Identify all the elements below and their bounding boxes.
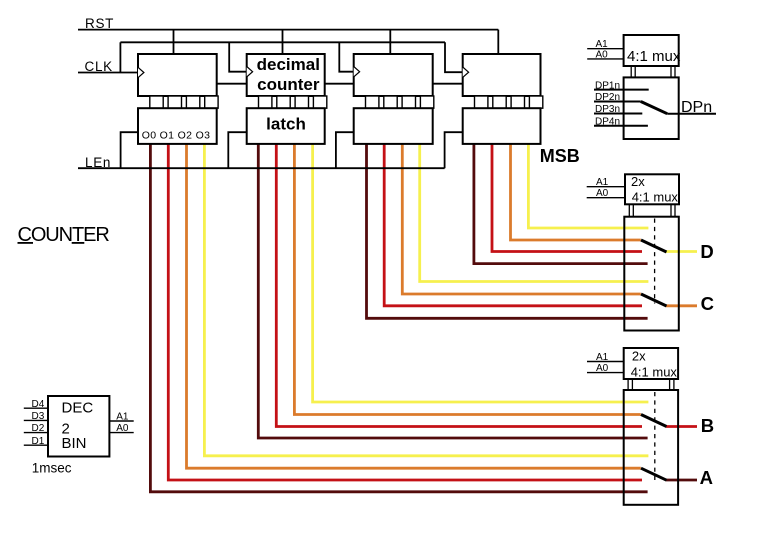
svg-text:A1: A1 [596,352,609,363]
svg-text:4:1 mux: 4:1 mux [632,190,679,205]
svg-text:A1: A1 [116,412,129,423]
mux U5 switch box [624,77,679,139]
pins counter U3 to latch L3 [366,96,434,108]
output line DPn [667,113,716,115]
svg-text:D2: D2 [32,423,45,434]
switch arm C [641,294,667,306]
svg-text:B: B [701,415,714,436]
counter U3 [354,54,433,96]
wire O1 digit1 (red) latch1 to mux A input 3 [168,144,642,480]
input line DP2n [594,101,641,103]
switch arm A [641,468,667,480]
wire O0 digit1 (dark red) latch1 to mux A input 4 [150,144,647,492]
pins U6 control to switch [629,204,633,216]
wire CLK to counter U3 [339,42,353,71]
mux U5 4:1 mux control box [624,35,679,66]
mux U5 A0 select line [587,58,623,60]
wire O2 digit4 (orange) latch4 to mux D input 2 [511,144,641,240]
counter U4 [463,54,541,96]
pins counter U2 to latch L2 [259,96,327,108]
mux U5 A1 select line [587,48,623,50]
wire O1 digit3 (red) latch3 to mux C input 3 [384,144,642,306]
wire O3 digit2 (yellow) latch2 to mux B input 1 [313,144,649,402]
latch L4 [463,108,541,144]
wire O2 digit3 (orange) latch3 to mux C input 2 [402,144,641,294]
svg-text:RST: RST [85,16,114,31]
svg-text:C: C [701,293,714,314]
output line A1 of converter [109,420,133,422]
pins counter U4 to latch L4 [475,96,543,108]
svg-text:DP4n: DP4n [595,116,620,127]
svg-text:O0 O1 O2 O3: O0 O1 O2 O3 [142,129,211,141]
wire CLK input [78,72,138,74]
output line A0 of converter [109,432,133,434]
clock pin triangle U4 [463,67,469,77]
latch L3 [354,108,433,144]
counter U1 [138,54,217,96]
wire LEn to latch L1 [121,132,138,168]
wire O3 digit3 (yellow) latch3 to mux C input 1 [420,144,649,282]
switch arm U5 [641,102,667,114]
svg-text:A1: A1 [596,177,609,188]
svg-text:2x: 2x [632,348,646,363]
wire O2 digit1 (orange) latch1 to mux A input 2 [187,144,641,468]
dashed select line U7 [654,392,656,480]
wire output C (orange) [666,304,697,307]
wire RST to counter U2 [282,30,284,54]
wire O3 digit1 (yellow) latch1 to mux A input 1 [204,144,648,456]
svg-text:4:1 mux: 4:1 mux [627,48,681,65]
svg-text:2x: 2x [631,174,645,189]
svg-text:A1: A1 [596,39,609,50]
wire output D (yellow) [666,250,697,253]
svg-text:LEn: LEn [85,155,111,170]
svg-text:D: D [700,241,713,262]
mux U7 2x 4:1 mux control box [624,348,678,379]
wire LEn to latch L3 [336,132,354,168]
svg-text:D4: D4 [32,399,45,410]
wire O2 digit2 (orange) latch2 to mux B input 2 [294,144,640,415]
svg-text:counter: counter [257,75,320,94]
svg-text:4:1 mux: 4:1 mux [631,364,678,379]
svg-text:DEC: DEC [62,399,94,416]
pins U7 control to switch [628,379,632,390]
wire RST to counter U3 [389,30,391,54]
wire LEn to latch L2 [228,132,246,168]
input line D1 [24,444,48,446]
pins counter U1 to latch L1 [150,96,218,108]
input line D3 [24,419,48,421]
wire O1 digit2 (red) latch2 to mux B input 3 [276,144,642,427]
mux U6 2x 4:1 mux control box [625,174,679,204]
wire output A (dark red) [666,479,697,482]
dashed select line U6 [654,219,656,304]
wire O3 digit4 (yellow) latch4 to mux D input 1 [528,144,648,228]
mux U6 A0 select line [587,197,625,199]
svg-text:D3: D3 [32,411,45,422]
svg-text:A0: A0 [116,423,129,434]
svg-text:A0: A0 [596,188,609,199]
pins U5 control to switch [631,66,635,77]
svg-text:D1: D1 [32,436,45,447]
clock pin triangle U2 [247,67,253,77]
wire O0 digit4 (dark red) latch4 to mux D input 4 [474,144,648,264]
wire output B (red) [666,425,697,428]
latch L1 [138,108,217,144]
svg-text:CLK: CLK [85,59,113,74]
wire LEn to latch L4 [445,132,463,168]
svg-text:A: A [700,467,713,488]
input line DP1n [594,89,649,91]
svg-text:DPn: DPn [681,99,712,116]
wire O1 digit4 (red) latch4 to mux D input 3 [492,144,642,252]
svg-text:decimal: decimal [257,55,320,74]
mux U6 switch box [624,217,679,331]
svg-text:1msec: 1msec [32,461,72,476]
net RST [78,29,498,31]
mux U7 switch box [624,390,678,505]
wire carry U3 to U4 [433,83,463,85]
svg-text:A0: A0 [596,50,609,61]
net CLK distribution line [120,41,445,43]
wire RST to counter U1 [173,30,175,54]
switch arm D [641,240,667,252]
switch arm B [641,415,667,427]
wire carry U1 to U2 [217,83,247,85]
DEC 2 BIN converter box [48,396,109,457]
svg-text:MSB: MSB [540,146,580,166]
input line DP3n [594,113,642,115]
svg-text:latch: latch [266,115,306,134]
mux U7 A1 select line [587,361,624,363]
wire O0 digit3 (dark red) latch3 to mux C input 4 [367,144,648,318]
svg-text:BIN: BIN [62,435,87,452]
counter U2 (decimal counter) [247,54,325,96]
input line D4 [24,407,48,409]
svg-text:A0: A0 [596,363,609,374]
svg-text:DP2n: DP2n [595,92,620,103]
wire CLK to counter U4 [445,42,463,72]
input line D2 [24,432,48,434]
mux U7 A0 select line [587,372,624,374]
mux U6 A1 select line [587,186,625,188]
wire RST to counter U4 [497,30,499,54]
wire carry U2 to U3 [325,83,354,85]
net LEn [78,167,445,169]
underline under C of COUNTER [18,242,34,244]
clock pin triangle U3 [354,67,360,77]
clock pin triangle U1 [138,67,144,77]
svg-text:DP3n: DP3n [595,104,620,115]
input line DP4n [594,125,648,127]
latch L2 [247,108,325,144]
svg-text:DP1n: DP1n [595,80,620,91]
underline under T of COUNTER [72,242,85,244]
wire CLK to counter U2 [229,42,247,71]
wire O0 digit2 (dark red) latch2 to mux B input 4 [258,144,647,438]
wire CLK riser [119,42,121,72]
